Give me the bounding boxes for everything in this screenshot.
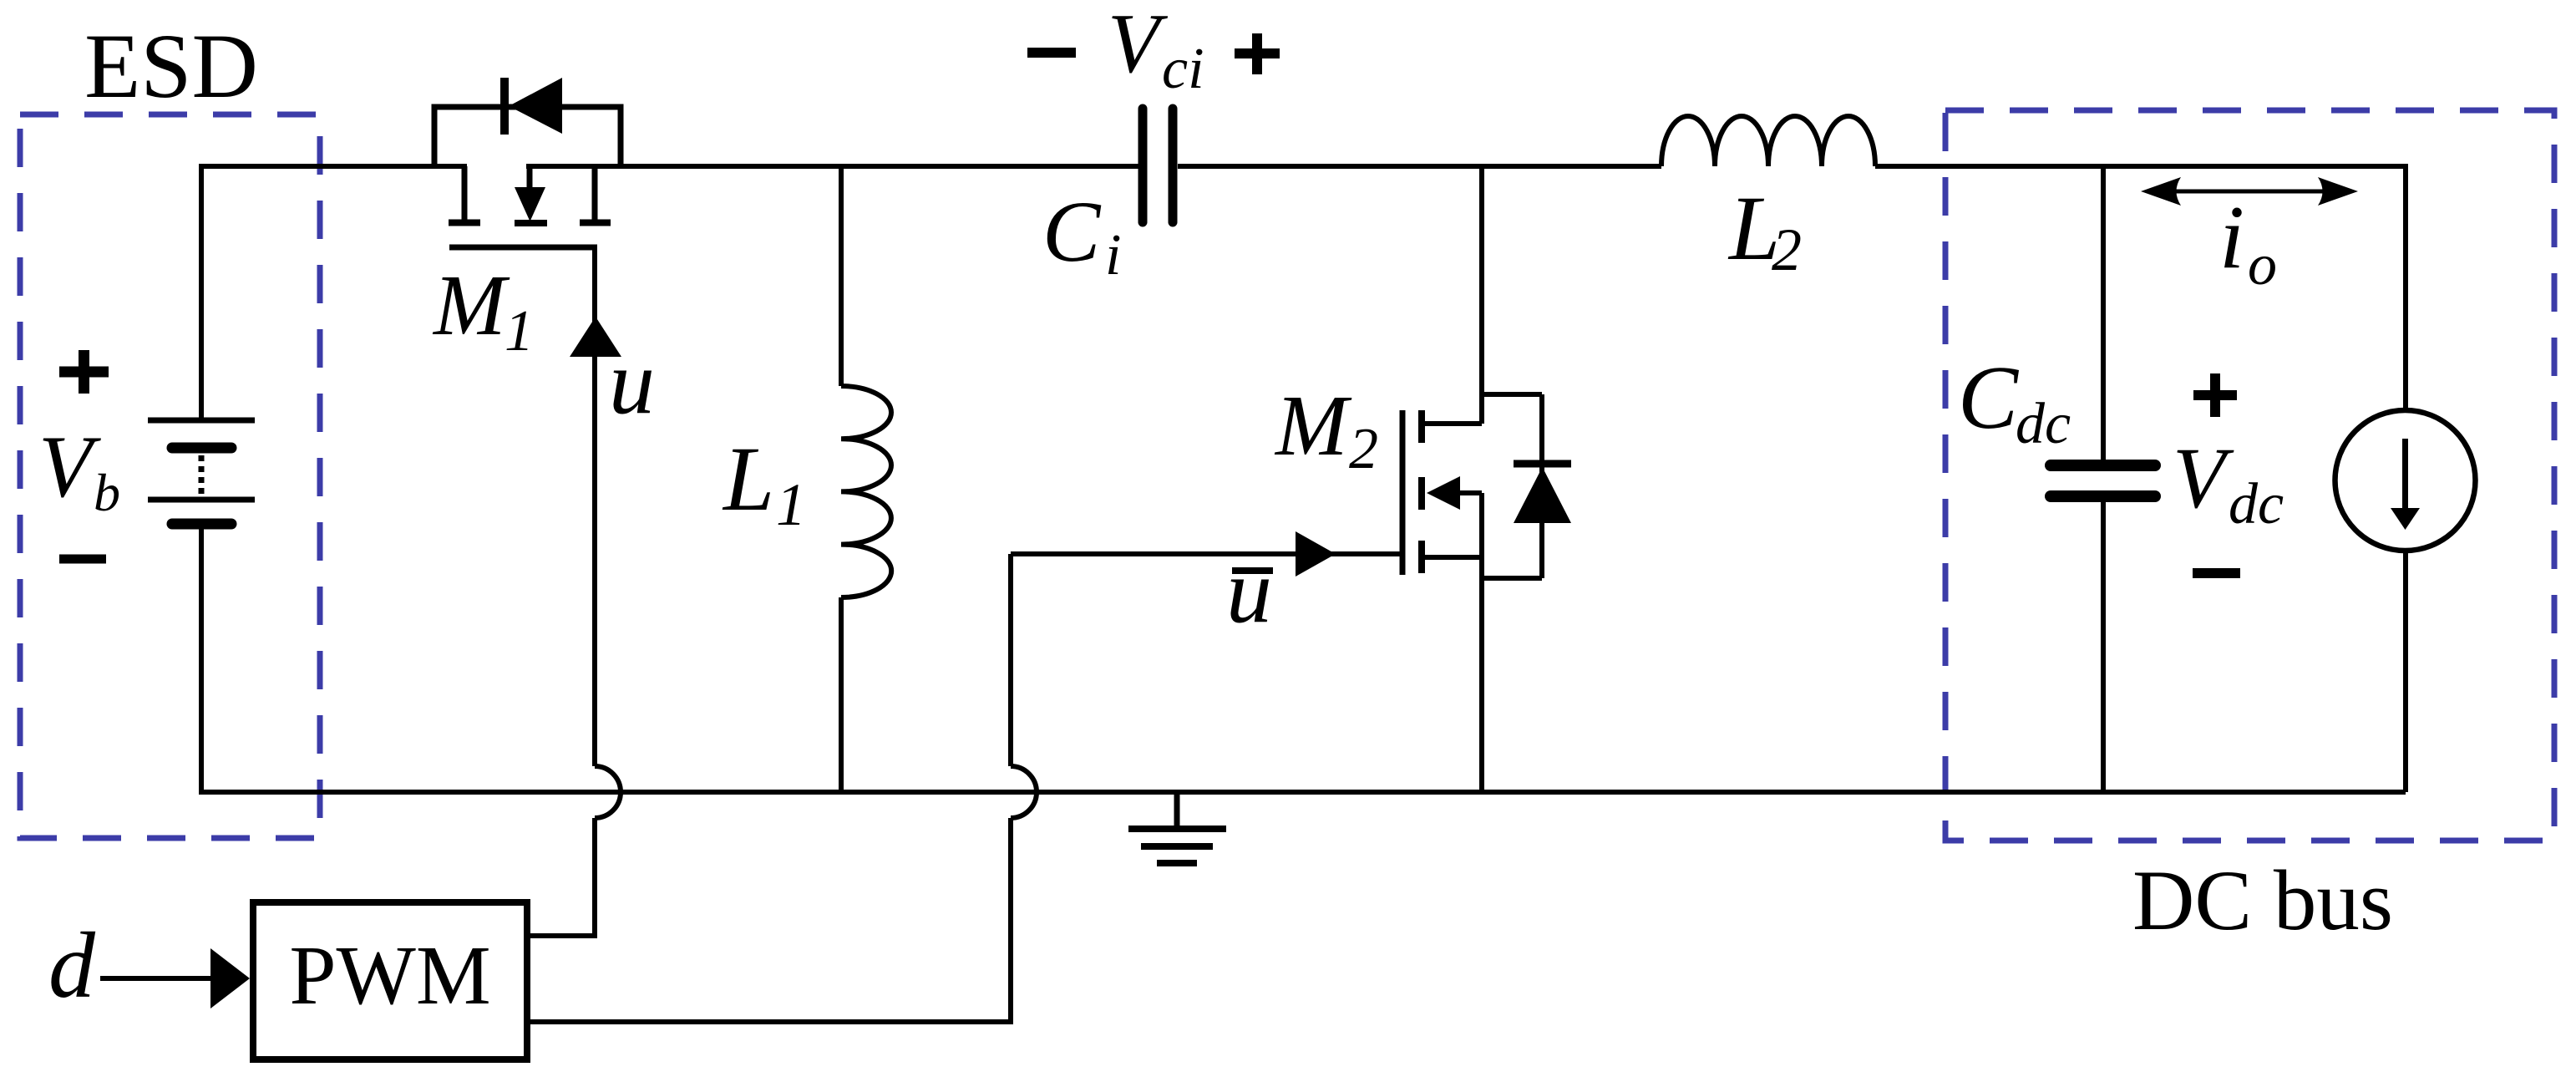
ESD dashed box [20, 114, 320, 838]
label C_i [1042, 184, 1121, 287]
wire Cdc bottom branch [2101, 502, 2106, 792]
label plus (Vdc) [2193, 373, 2237, 417]
wire ubar riser lower run to PWM output 2 [529, 818, 1011, 1022]
label ubar [1226, 540, 1273, 642]
svg-text:dc: dc [2016, 392, 2071, 456]
arrow u (gate signal up) [570, 317, 621, 357]
wire Cdc top branch [2101, 164, 2106, 460]
label plus (Vci) [1235, 33, 1280, 74]
battery V_b [148, 420, 255, 524]
svg-text:C: C [1042, 184, 1102, 280]
transistor M1 [449, 166, 611, 247]
label V_ci [1108, 0, 1204, 101]
battery plus label [59, 350, 109, 394]
svg-text:V: V [2173, 430, 2234, 526]
svg-text:i: i [2219, 188, 2244, 287]
label M_1 [432, 257, 534, 363]
wire gate ubar horizontal [1011, 551, 1402, 556]
capacitor Ci [1143, 109, 1173, 222]
wire hop over bottom rail (gate wire u) [595, 766, 621, 818]
svg-text:dc: dc [2229, 472, 2284, 536]
battery minus label [59, 555, 106, 564]
label L_1 [722, 428, 806, 538]
label minus (Vci) [1027, 48, 1076, 58]
wire bottom rail [199, 790, 2406, 795]
svg-text:b: b [94, 463, 120, 522]
svg-text:V: V [38, 418, 101, 516]
wire M2 top jog to diode [1482, 392, 1542, 397]
wire hop over bottom rail (ubar wire) [1011, 766, 1037, 818]
svg-text:1: 1 [505, 299, 534, 363]
svg-text:u: u [609, 331, 655, 433]
wire right branch bottom [2403, 551, 2408, 792]
label C_dc [1958, 348, 2071, 456]
wire L1 top branch [839, 164, 844, 386]
wire top rail right segment [1875, 164, 2406, 169]
wire M2 drain branch [1479, 164, 1484, 424]
diode D1 (M1 body diode) [434, 78, 621, 166]
wire battery top branch [199, 164, 204, 420]
label d [48, 914, 96, 1018]
svg-text:1: 1 [776, 471, 806, 538]
wire top rail right of Ci [1178, 164, 1661, 169]
svg-text:o: o [2248, 233, 2277, 297]
svg-text:V: V [1108, 0, 1169, 91]
wire battery bottom branch [199, 529, 204, 792]
arrow i_o double-headed [2141, 177, 2358, 206]
arrow d input [100, 948, 250, 1008]
DC bus dashed box [1945, 110, 2554, 841]
svg-text:i: i [1105, 223, 1121, 287]
wire top rail middle segment [526, 164, 1138, 169]
transistor M2 [1402, 410, 1482, 575]
svg-text:ci: ci [1162, 37, 1204, 101]
svg-text:DC bus: DC bus [2132, 853, 2393, 948]
diode D2 (M2 body diode) [1514, 394, 1571, 578]
capacitor Cdc [2051, 465, 2155, 496]
wire M2 bottom jog to diode [1482, 576, 1542, 581]
DC bus label [2132, 853, 2393, 948]
svg-text:ESD: ESD [84, 15, 258, 117]
svg-text:C: C [1958, 348, 2020, 448]
svg-text:d: d [48, 914, 96, 1018]
label V_b [38, 418, 120, 522]
wire M1 gate down to PWM [592, 247, 597, 766]
label L_2 [1727, 177, 1802, 283]
label PWM [289, 928, 490, 1022]
PWM box [253, 902, 527, 1059]
label M_2 [1274, 378, 1378, 481]
svg-text:PWM: PWM [289, 928, 490, 1022]
wire ubar riser upper [1008, 554, 1013, 766]
label minus (Vdc) [2193, 568, 2240, 578]
label u [609, 331, 655, 433]
inductor L2 [1661, 116, 1875, 166]
svg-text:2: 2 [1349, 417, 1378, 481]
wire M2 source down [1479, 493, 1484, 792]
label i_o [2219, 188, 2277, 297]
svg-text:2: 2 [1772, 216, 1802, 283]
svg-text:M: M [432, 257, 510, 353]
wire right branch top [2403, 164, 2408, 410]
current source io [2335, 410, 2476, 551]
inductor L1 [841, 386, 891, 597]
ESD label [84, 15, 258, 117]
ground [1128, 792, 1226, 863]
svg-text:L: L [722, 428, 774, 530]
wire L1 bottom branch [839, 597, 844, 792]
svg-text:u: u [1226, 540, 1272, 642]
wire gate u lower run to PWM output 1 [529, 818, 595, 936]
label V_dc [2173, 430, 2284, 536]
wire top rail left segment [201, 164, 467, 169]
arrow ubar (gate signal right) [1296, 531, 1336, 577]
svg-text:M: M [1274, 378, 1352, 474]
